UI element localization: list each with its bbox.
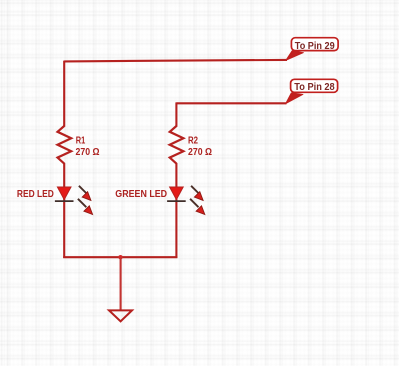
svg-text:GREEN LED: GREEN LED <box>115 189 167 200</box>
wire: net to pin 28, vertical drop to R2 <box>175 102 177 126</box>
LED1: emission arrow 1 head <box>82 192 91 201</box>
LED2: emission arrow 1 shaft <box>191 186 199 194</box>
wire: LED1 cathode to bottom rail <box>63 201 65 258</box>
flag To Pin 28: box <box>291 79 338 92</box>
LED2 (GREEN LED): cathode bar <box>167 200 186 202</box>
LED2 (GREEN LED): anode triangle <box>170 187 184 200</box>
svg-text:To Pin 29: To Pin 29 <box>295 41 335 52</box>
wire: junction down to ground <box>120 257 122 310</box>
wire: net to pin 29, vertical drop to R1 <box>63 61 65 127</box>
junction node dot <box>118 255 122 259</box>
svg-text:RED LED: RED LED <box>17 189 54 200</box>
svg-text:To Pin 28: To Pin 28 <box>294 82 335 93</box>
wire: net to pin 29, horizontal run <box>64 60 287 62</box>
flag To Pin 28: tail wedge <box>286 93 304 104</box>
svg-text:R2: R2 <box>188 136 198 147</box>
ground symbol triangle <box>109 310 132 321</box>
wire: R1 to LED1 anode <box>63 163 65 202</box>
wire: R2 to LED2 anode <box>175 163 177 202</box>
flag To Pin 29: box <box>291 38 338 51</box>
LED2: emission arrow 2 shaft <box>190 199 198 207</box>
LED1: emission arrow 2 head <box>84 206 93 215</box>
svg-text:270 Ω: 270 Ω <box>188 147 212 158</box>
wire: bottom rail joining both cathodes <box>63 256 177 258</box>
LED1: emission arrow 2 shaft <box>78 199 86 207</box>
wire: LED2 cathode to bottom rail <box>175 201 177 258</box>
LED1: emission arrow 1 shaft <box>79 186 87 194</box>
LED2: emission arrow 2 head <box>196 206 205 215</box>
svg-text:R1: R1 <box>76 136 86 147</box>
LED1 (RED LED): cathode bar <box>55 200 74 202</box>
wire: net to pin 28, horizontal run <box>176 102 286 104</box>
LED1 (RED LED): anode triangle <box>57 187 71 200</box>
svg-text:270 Ω: 270 Ω <box>76 147 100 158</box>
LED2: emission arrow 1 head <box>194 192 203 201</box>
flag To Pin 29: tail wedge <box>286 51 304 61</box>
resistor R1: zigzag body <box>58 126 72 164</box>
resistor R2: zigzag body <box>170 126 184 164</box>
